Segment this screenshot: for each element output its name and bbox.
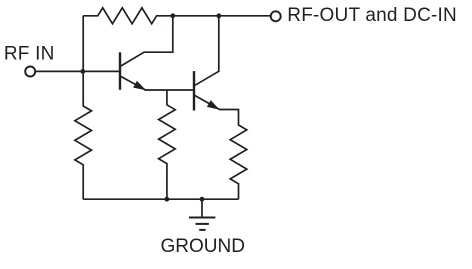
svg-text:RF IN: RF IN xyxy=(4,43,55,64)
svg-text:GROUND: GROUND xyxy=(161,236,245,257)
svg-text:RF-OUT and DC-IN: RF-OUT and DC-IN xyxy=(287,5,457,26)
